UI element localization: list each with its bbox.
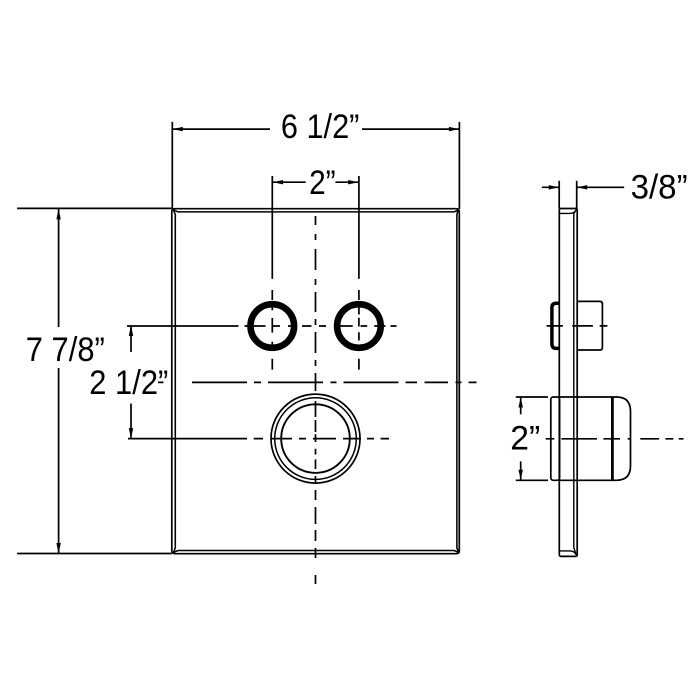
dim 2 1/2 dimension line bottom arrow segment	[130, 404, 132, 439]
lower knob dome cap	[617, 397, 631, 480]
dim 3/8 arrow line left	[542, 186, 559, 188]
dim 3/8 arrow pointing right	[549, 185, 560, 189]
dim 6 1/2 arrow right	[449, 127, 460, 131]
dim 2 side extension bottom	[516, 479, 548, 481]
dim 2 arrow left	[273, 180, 284, 184]
lower knob rear part	[551, 397, 560, 480]
dim 3/8 extension left	[558, 181, 560, 209]
dim 7 7/8 dimension line	[58, 209, 60, 554]
centerline horizontal through small circles y=326	[127, 325, 397, 327]
dim 3/8 extension right	[576, 181, 578, 209]
centerline vertical through left small circle	[271, 176, 273, 370]
dim 7 7/8 extension bottom	[17, 553, 172, 555]
svg-text:2 1/2”: 2 1/2”	[89, 364, 168, 402]
dim 2 1/2 dimension line top arrow segment	[130, 325, 132, 352]
big knob outer circle	[271, 394, 360, 483]
dim 6 1/2 extension line right	[458, 122, 460, 209]
dim 2 side arrow up	[519, 397, 523, 408]
dim 6 1/2 dimension line	[172, 128, 459, 130]
dim 2 side arrow down	[519, 470, 523, 481]
lower knob cylinder bottom edge	[560, 479, 617, 481]
big knob inner circle	[281, 404, 350, 473]
front plate inner edge line	[173, 210, 458, 553]
front plate outer outline	[172, 209, 460, 554]
upper knob rear part (thick)	[552, 303, 560, 348]
svg-text:2”: 2”	[309, 164, 336, 202]
button hole left (thick circle)	[250, 304, 294, 348]
upper knob centerline	[547, 325, 608, 327]
dim 2 1/2 arrow down	[129, 428, 133, 439]
upper knob front part	[577, 301, 602, 350]
dim 7 7/8 arrow bottom	[56, 543, 60, 554]
centerline horizontal through big circle y=438.6	[128, 438, 389, 440]
dim 3/8 arrow pointing left	[577, 185, 588, 189]
dim 3/8 arrow line right	[577, 186, 625, 188]
svg-text:3/8”: 3/8”	[631, 169, 688, 207]
lower knob cylinder top edge	[560, 396, 617, 398]
centerline vertical through right small circle	[358, 176, 360, 370]
button hole right (thick circle)	[337, 304, 381, 348]
lower knob dome junction line (thick)	[611, 397, 614, 480]
dim 2 arrow right	[348, 180, 359, 184]
dim 2 dimension line	[273, 181, 359, 183]
centerline horizontal plate axis y=382.4	[158, 381, 477, 383]
dim 7 7/8 extension top	[17, 207, 172, 209]
lower knob centerline	[546, 438, 684, 440]
side plate outline	[559, 209, 577, 557]
big knob middle circle	[275, 398, 357, 480]
dim 6 1/2 extension line left	[171, 122, 173, 209]
dim 2 side arrow segment top	[520, 397, 522, 414]
dim 6 1/2 arrow left	[172, 127, 183, 131]
side plate inner face line	[559, 210, 576, 555]
dim 2 1/2 arrow up	[129, 325, 133, 336]
dim 2 side extension top	[516, 396, 548, 398]
svg-text:2”: 2”	[510, 420, 540, 458]
centerline vertical plate axis x=315.5	[315, 216, 317, 584]
svg-text:6 1/2”: 6 1/2”	[281, 108, 360, 146]
dim 2 side arrow segment bottom	[520, 461, 522, 480]
dim 7 7/8 arrow top	[56, 209, 60, 220]
